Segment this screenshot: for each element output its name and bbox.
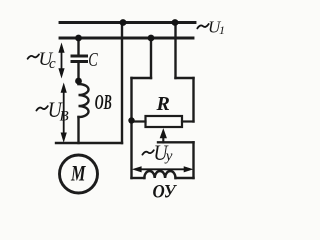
svg-text:1: 1 [219,23,225,37]
svg-text:C: C [88,49,98,71]
svg-text:M: M [70,160,86,185]
svg-text:y: y [164,149,173,165]
svg-text:R: R [156,93,170,115]
svg-text:c: c [49,56,56,72]
svg-text:B: B [60,109,69,125]
svg-text:OB: OB [95,90,112,114]
svg-text:ОУ: ОУ [153,182,178,202]
